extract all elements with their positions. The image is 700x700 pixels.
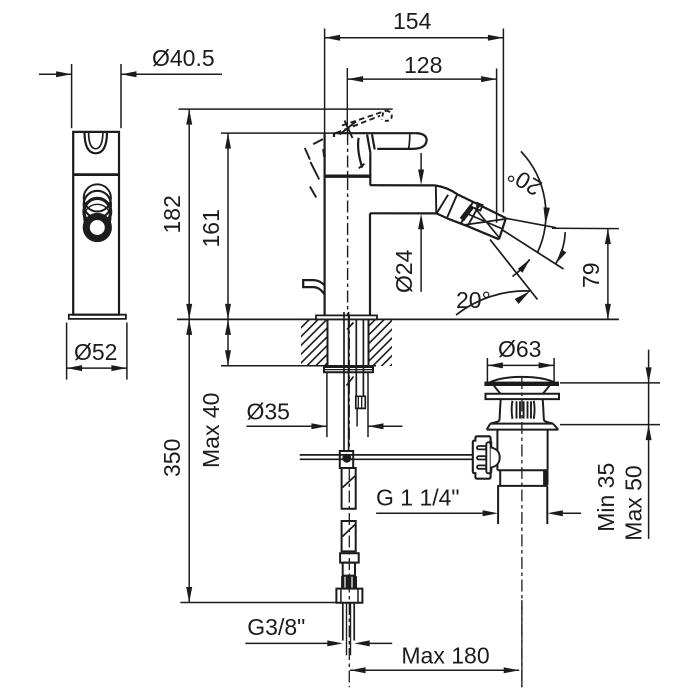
drain extension line basin bottom: [560, 424, 660, 426]
dimension 154 line and arrows: [325, 37, 504, 39]
dimension 128 line and arrows: [348, 78, 497, 80]
drain body right wall: [547, 430, 549, 471]
front view: spout opening outer arc: [85, 132, 108, 153]
side view: swung lever dash a: [313, 139, 323, 144]
side view: aerator gasket dark band: [460, 205, 473, 221]
dimension Dia 40.5 line and arrows: [39, 73, 72, 75]
drain knurl left outline: [499, 399, 500, 421]
angle arc top 20 degrees: [521, 151, 546, 253]
dimension 350 bottom reference line: [180, 602, 336, 604]
front view: faucet body column: [73, 132, 119, 315]
dimension 128 extension right: [496, 69, 498, 223]
side view: lever left end stub: [333, 133, 335, 137]
svg-text:Min 35: Min 35: [593, 463, 619, 532]
side view: aerator internal line 1: [475, 208, 500, 239]
drain tailpipe left wall: [497, 486, 499, 524]
front view: handle knob circle 3 thick: [84, 198, 111, 225]
rod break tick: [347, 377, 354, 386]
side view: swung lever dash d: [310, 187, 316, 198]
svg-text:Ø24: Ø24: [391, 249, 417, 293]
side view: aerator internal line 3: [469, 215, 502, 229]
threaded shank left wall: [327, 319, 329, 366]
front view: handle knob circle 4 thin: [84, 204, 111, 231]
side view: aerator tab: [474, 203, 483, 211]
side view: lever neck stem left: [367, 135, 370, 154]
dimension Dia 52 extension lines: [66, 323, 68, 380]
front view: spout opening inner arc: [89, 132, 103, 148]
dimension 154 extension left: [324, 29, 326, 134]
side view center line lower: [348, 315, 350, 451]
side view: lever bottom edge: [377, 148, 411, 150]
side view: body seam thick band: [325, 174, 370, 177]
side view: body right edge upper: [369, 153, 371, 185]
side view: aerator tab dot: [477, 205, 480, 208]
pop-up rod extension below washer right: [367, 372, 369, 437]
drain knurl to flange taper right: [544, 421, 553, 424]
dimension 154 extension right: [502, 29, 504, 213]
drain knurl to flange taper left: [490, 421, 499, 424]
svg-text:79: 79: [578, 262, 604, 288]
threaded shank right wall: [368, 319, 370, 366]
dimension Dia 63 extension lines: [486, 358, 488, 386]
svg-text:182: 182: [159, 195, 185, 233]
front view: handle knob circle 1: [84, 184, 111, 211]
drain knurl right outline: [543, 399, 544, 421]
side view: base plate: [316, 315, 377, 319]
drain body inset left wall: [499, 470, 501, 486]
front view: handle knob end face bold ring: [84, 214, 111, 241]
horizontal linkage rod: [300, 454, 474, 456]
angle tick arc with arrow lower: [513, 259, 530, 276]
water jet line upper: [506, 218, 556, 227]
svg-text:Max 180: Max 180: [401, 642, 489, 668]
dimension 161 extension line top: [221, 132, 334, 134]
svg-text:128: 128: [404, 52, 442, 78]
front view: body seam line: [73, 173, 119, 176]
water jet line middle: [503, 230, 564, 269]
drain dome cap top arc: [489, 377, 556, 383]
drain knurl ribs: [516, 401, 518, 418]
drain knurl barrel right: [533, 401, 536, 419]
mounting washer and nut thick band: [324, 367, 373, 372]
pop-up linkage joint ball: [342, 454, 351, 463]
side view: lever neck stem right: [372, 134, 375, 149]
supply pipe outer pair: [342, 603, 344, 641]
side view: spout elbow bottom curve: [436, 213, 447, 218]
drain knob rim capsule: [486, 442, 490, 473]
dimension Dia 52 line and arrows: [67, 367, 127, 369]
side view: front hook tab: [303, 280, 324, 294]
angle arc bottom 20 degrees: [456, 291, 530, 315]
faucet center line bottom: [348, 468, 350, 687]
side view: lever right end cap: [412, 133, 427, 149]
side view: lever end inner line: [409, 134, 410, 148]
dimension Dia 63 line and arrows: [487, 364, 554, 366]
pop-up linkage joint square: [340, 451, 353, 468]
dimension 182 vertical line and arrows: [188, 109, 190, 319]
side view: aerator cone top edge: [479, 205, 506, 218]
side view: swung lever dash e: [359, 164, 365, 169]
side view: raised lever dashed inner cap line: [382, 113, 384, 120]
rod bar break tick 2: [343, 525, 356, 537]
side view: spout elbow diagonal seam a: [437, 195, 448, 214]
drain cap taper left: [494, 386, 501, 394]
rod lower section: [343, 563, 355, 576]
side view: cartridge skirt curve: [358, 138, 362, 168]
side view: spout elbow outer top curve: [435, 185, 458, 194]
drain upper flange plate: [486, 394, 560, 399]
side view: body right edge lower: [369, 213, 371, 315]
side view: raised lever dashed bottom line: [336, 116, 380, 133]
side view: spout sleeve top edge: [458, 195, 479, 205]
side view: raised lever dashed top line: [342, 111, 386, 126]
svg-text:Max 50: Max 50: [621, 465, 647, 540]
svg-text:Ø35: Ø35: [247, 399, 290, 425]
dimension 161 vertical line and arrows: [227, 133, 229, 319]
drain tailpipe right wall: [546, 486, 548, 524]
drain body step line: [497, 469, 547, 471]
svg-text:Ø40.5: Ø40.5: [152, 45, 215, 71]
supply nut G3/8: [336, 589, 362, 603]
vertical rod bar segment 1: [342, 468, 356, 509]
side view: lever top edge: [334, 132, 416, 134]
drain tailpipe top line: [497, 485, 547, 487]
svg-text:Ø52: Ø52: [74, 339, 117, 365]
drain lower flange: [487, 424, 559, 430]
dimension 182 extension line top: [179, 108, 393, 110]
dimension 79 vertical line and arrows: [607, 229, 609, 320]
svg-text:154: 154: [393, 8, 432, 34]
drain extension line bottom Max180: [521, 600, 523, 687]
svg-text:G3/8": G3/8": [247, 614, 305, 640]
drain extension line basin top: [560, 382, 660, 384]
dimension Dia 24 lower arrow and line: [418, 214, 424, 230]
pop-up rod pair: [343, 312, 345, 451]
drain thread relief dark block: [544, 471, 548, 485]
drain knurl barrel left: [511, 401, 514, 419]
side view: pivot cross mark 1: [340, 122, 357, 135]
vertical rod bar segment 2: [342, 521, 356, 551]
drain knob outer shape: [473, 436, 491, 478]
mounting surface line: [177, 318, 619, 320]
svg-text:161: 161: [198, 209, 224, 247]
water jet line lower: [490, 240, 538, 300]
drain cap taper right: [543, 386, 550, 394]
rod collar: [340, 553, 359, 562]
hose nipple lower stub: [356, 408, 358, 426]
angle arc bottom arrowhead: [515, 291, 530, 304]
dimension Max 40 vertical line and arrows: [227, 319, 229, 365]
dimension G3/8 line and arrows: [245, 642, 328, 644]
side view: body edge tick at swung lever: [324, 149, 325, 157]
angle arc top arrowhead: [544, 207, 550, 224]
dimension Dia 40.5 extension lines: [71, 64, 73, 128]
dimension 79 extension line top: [552, 227, 619, 229]
dimension Dia 35 line and arrows: [247, 425, 327, 427]
dimension G 1 1/4 line and arrows: [376, 512, 483, 514]
side view: aerator internal line 2: [464, 219, 505, 225]
dimension Dia 24 upper line and arrow: [420, 153, 422, 172]
drain body left wall: [496, 430, 498, 471]
side view: aerator cone bottom edge: [468, 226, 499, 239]
side view: center line dash-dot: [346, 68, 348, 133]
drain center line: [521, 377, 523, 687]
side view: raised lever dashed end cap: [384, 111, 392, 121]
supply pipe inner pair: [346, 603, 348, 656]
side view: spout elbow diagonal seam b: [447, 194, 457, 218]
side view: aerator face: [499, 218, 506, 239]
flexible hose pair: [355, 320, 357, 397]
angle tick arc with arrow upper: [556, 232, 565, 264]
dimension Max 40 bottom extension line: [221, 365, 376, 367]
side view: swung lever dash b: [305, 148, 310, 160]
side view: spout top edge: [370, 184, 435, 186]
dimension Max 180 line and arrows: [350, 669, 519, 671]
svg-text:350: 350: [159, 439, 185, 477]
side view: aerator ring seam line 1: [461, 202, 473, 223]
rod bar break tick 1: [343, 476, 356, 488]
dimension Min35 Max50 vertical line and arrows: [648, 350, 650, 539]
side view: spout elbow vertical seam: [435, 185, 438, 213]
pop-up rod extension below washer left: [326, 372, 328, 437]
drain dome cap thick rim: [485, 382, 559, 385]
side view: spout bottom edge: [370, 212, 436, 214]
drain knob hub lobe: [491, 447, 500, 467]
rod break tick upper: [347, 323, 354, 330]
svg-text:G 1 1/4": G 1 1/4": [376, 485, 460, 511]
side view: swung lever dash c: [310, 162, 319, 180]
side view: body left edge: [324, 133, 326, 315]
side view: pivot cross mark 2: [345, 121, 353, 139]
front view: base plate: [69, 315, 126, 319]
supply connector dark section: [342, 577, 357, 588]
side view: aerator ring seam line 2: [468, 205, 480, 226]
drain body inset right wall: [544, 470, 546, 486]
drain knob slots: [477, 446, 486, 449]
front view: handle knob circle 2: [84, 191, 111, 218]
hose nipple: [356, 396, 366, 408]
side view: spout sleeve bottom edge: [447, 218, 468, 226]
svg-text:Max 40: Max 40: [198, 393, 224, 468]
svg-text:Ø63: Ø63: [498, 336, 541, 362]
svg-text:20°: 20°: [456, 287, 491, 313]
dimension 350 vertical line and arrows: [188, 319, 190, 602]
